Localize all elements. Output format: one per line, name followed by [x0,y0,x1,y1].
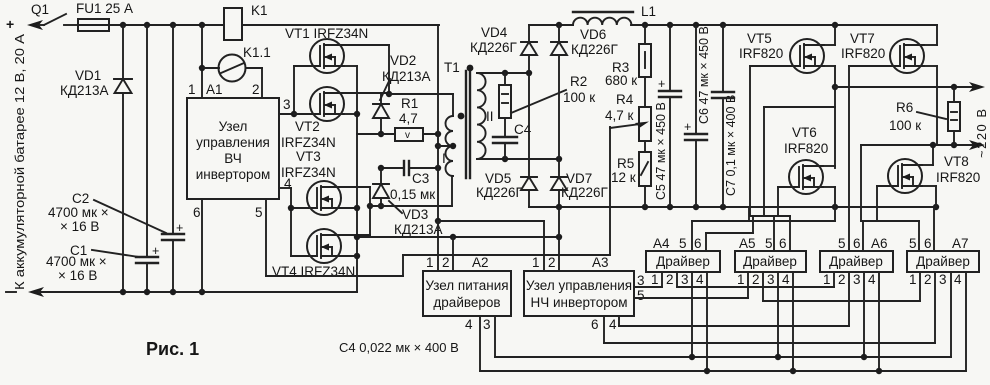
svg-text:1: 1 [532,255,540,270]
T1 primary winding I [446,116,454,176]
svg-text:Q1: Q1 [31,2,49,17]
wire VT3 drain line to T1 bottom [370,205,452,207]
svg-text:6: 6 [779,236,787,251]
HV+ top bus [529,24,573,26]
svg-text:IRF820: IRF820 [739,46,783,61]
VT7 gate wire [849,65,900,67]
svg-text:Драйвер: Драйвер [656,254,710,269]
A1 pin5 sync line to R4 wiper [266,275,403,277]
VT6 drain wire [823,165,835,167]
wire A3 pin3 to A4 pin1 [634,286,662,288]
svg-text:Рис. 1: Рис. 1 [146,339,199,359]
secondary bottom bus [477,158,559,160]
svg-text:драйверов: драйверов [433,295,500,310]
wire A2 pin3 common line [495,356,951,358]
svg-text:А2: А2 [472,255,489,270]
svg-text:2: 2 [752,272,760,287]
svg-text:VT6: VT6 [792,125,817,140]
VT8 gate wire [877,185,898,187]
svg-text:VT2: VT2 [295,119,320,134]
svg-text:5: 5 [909,236,917,251]
svg-text:Узел питания: Узел питания [425,278,508,293]
svg-text:IRF820: IRF820 [936,170,980,185]
VT8 source wire [922,185,936,187]
svg-text:VT3: VT3 [296,149,321,164]
wire A4 pin2 to A6 pin1 [677,286,834,288]
svg-text:4,7: 4,7 [399,111,418,126]
svg-text:КД213А: КД213А [60,83,109,98]
svg-text:5: 5 [679,236,687,251]
A4 pin5 HV- link [834,206,836,208]
svg-text:1: 1 [188,82,196,97]
svg-text:КД213А: КД213А [394,222,443,237]
svg-text:2: 2 [924,272,932,287]
svg-text:КД226Г: КД226Г [476,185,524,200]
svg-text:управления: управления [196,135,270,150]
svg-text:2: 2 [838,272,846,287]
wire 12V to K1.1 [201,25,203,98]
svg-text:5: 5 [637,288,645,303]
svg-text:R4: R4 [616,92,634,107]
svg-text:4: 4 [868,272,876,287]
svg-text:1: 1 [651,272,659,287]
svg-text:1: 1 [823,272,831,287]
svg-text:100 к: 100 к [889,118,921,133]
VT5 gate wire [750,65,800,67]
svg-text:4: 4 [696,272,704,287]
svg-text:Драйвер: Драйвер [916,254,970,269]
VT5 source / OUT-L column [824,65,835,67]
+12V feed line to A2 A3 [438,220,544,222]
svg-text:Драйвер: Драйвер [829,254,883,269]
wire A4 pin6 [706,232,753,234]
bottom bus minus rail [28,287,44,297]
svg-text:А6: А6 [871,236,888,251]
svg-text:T1: T1 [444,60,460,75]
svg-text:3: 3 [283,97,291,112]
wire VT1 drain line to T1 top [389,93,453,95]
VT7 source wire [924,65,937,67]
VT5 drain wire [824,44,835,46]
svg-text:C2: C2 [72,191,89,206]
VT7 drain wire [924,44,937,46]
svg-text:С7 0,1 мк × 400 В: С7 0,1 мк × 400 В [724,95,738,196]
svg-text:4,7 к: 4,7 к [605,108,634,123]
svg-text:VD5: VD5 [485,171,511,186]
VT3 VT4 drain wires [341,186,370,188]
secondary top bus [477,72,529,74]
OUT bottom line [861,144,978,146]
svg-text:6: 6 [924,236,932,251]
svg-text:А3: А3 [592,255,609,270]
svg-text:4: 4 [954,272,962,287]
svg-text:Узел управления: Узел управления [526,278,632,293]
svg-text:VD7: VD7 [566,171,592,186]
svg-text:+: + [684,120,691,134]
svg-text:1: 1 [426,255,434,270]
svg-text:НЧ инвертором: НЧ инвертором [530,295,627,310]
svg-text:× 16 В: × 16 В [58,268,97,283]
svg-text:С6 47 мк × 450 В: С6 47 мк × 450 В [697,26,711,124]
wire A3 pin6 to A7 pin2 [604,342,935,344]
svg-text:Драйвер: Драйвер [743,254,797,269]
svg-text:VT7: VT7 [850,31,875,46]
svg-text:4: 4 [465,317,473,332]
svg-text:VT8: VT8 [944,154,969,169]
svg-text:100 к: 100 к [563,90,595,105]
svg-text:C3: C3 [412,171,429,186]
VT6 source wire [823,186,835,188]
svg-text:R5: R5 [617,156,634,171]
svg-text:2: 2 [442,255,450,270]
svg-text:IRFZ34N: IRFZ34N [281,165,336,180]
svg-text:6: 6 [193,205,201,220]
svg-text:IRFZ34N: IRFZ34N [281,135,336,150]
wire A2 pin4 common line [480,370,966,372]
svg-text:5: 5 [765,236,773,251]
svg-text:С4 0,022 мк × 400 В: С4 0,022 мк × 400 В [339,340,459,355]
svg-text:5: 5 [838,236,846,251]
svg-text:3: 3 [939,272,947,287]
svg-text:K1.1: K1.1 [243,45,271,60]
T1 secondary winding II [477,73,486,159]
svg-text:FU1 25 А: FU1 25 А [76,1,133,16]
input arrow top [27,20,43,30]
svg-text:II: II [486,109,494,124]
svg-text:А1: А1 [206,82,223,97]
svg-text:инвертором: инвертором [196,167,271,182]
svg-text:К аккумуляторной батарее 12 В,: К аккумуляторной батарее 12 В, 20 А [12,34,27,290]
svg-text:+: + [152,244,159,258]
svg-text:VD3: VD3 [402,207,428,222]
VT6 gate wire [778,186,799,188]
primary polarity dot [458,113,465,120]
wire A3 pin4 to A6 pin2 [619,325,849,327]
svg-text:R2: R2 [570,74,587,89]
svg-text:6: 6 [694,236,702,251]
svg-text:12 к: 12 к [611,170,636,185]
svg-text:3: 3 [637,273,645,288]
svg-text:3: 3 [853,272,861,287]
VT3 VT4 source wires [341,207,357,209]
svg-text:VD2: VD2 [390,53,416,68]
primary bottom lead [451,176,453,206]
svg-text:4: 4 [782,272,790,287]
wire A3 pin5 to A5 pin1 [634,297,748,299]
svg-text:I: I [442,151,446,166]
OUT-L sense wire [764,106,835,108]
svg-text:VD4: VD4 [481,25,508,40]
wire A5 pin2 to A7 pin1 [763,300,920,302]
VT1 VT2 drain wires [344,44,389,46]
svg-text:3: 3 [483,317,491,332]
OUT top line [835,86,978,88]
HV- bottom bus [529,206,937,208]
ground line to A2 A3 [357,236,559,238]
svg-text:КД226Г: КД226Г [571,42,619,57]
svg-text:КД226Г: КД226Г [470,40,518,55]
wire top bus 12V [109,24,224,26]
node dots top bus [120,22,126,28]
primary centre tap [438,145,453,147]
svg-text:v: v [405,130,410,141]
svg-text:5: 5 [255,205,263,220]
svg-text:А5: А5 [739,236,756,251]
wire +12V drop column [437,25,439,221]
svg-text:А7: А7 [952,236,969,251]
svg-text:VD1: VD1 [75,68,101,83]
svg-text:4: 4 [609,317,617,332]
svg-text:6: 6 [853,236,861,251]
svg-text:3: 3 [767,272,775,287]
svg-text:L1: L1 [641,4,656,19]
svg-text:+: + [658,77,665,91]
svg-text:Узел: Узел [219,119,248,134]
svg-text:+: + [6,16,14,32]
VT1 VT2 source wires to ground column [344,65,357,67]
secondary polarity dot [467,65,474,72]
svg-text:4700 мк ×: 4700 мк × [46,254,107,269]
svg-text:6: 6 [591,317,599,332]
svg-text:А4: А4 [653,236,670,251]
svg-text:R6: R6 [896,100,913,115]
svg-text:+: + [176,221,183,235]
svg-text:1: 1 [909,272,917,287]
svg-text:IRF820: IRF820 [841,46,885,61]
svg-text:R1: R1 [401,96,418,111]
svg-text:× 16 В: × 16 В [60,219,99,234]
svg-text:2: 2 [548,255,556,270]
svg-text:ВЧ: ВЧ [224,151,241,166]
svg-text:2: 2 [666,272,674,287]
svg-text:IRF820: IRF820 [784,141,828,156]
svg-text:1: 1 [737,272,745,287]
svg-text:0,15 мк: 0,15 мк [390,187,435,202]
svg-text:4700 мк ×: 4700 мк × [48,205,109,220]
svg-text:3: 3 [681,272,689,287]
svg-text:КД226Г: КД226Г [561,185,609,200]
svg-text:VD6: VD6 [580,27,606,42]
T1 core [465,71,467,178]
svg-text:680 к: 680 к [605,73,637,88]
svg-text:VT5: VT5 [747,31,772,46]
svg-text:~220 В: ~220 В [974,107,989,158]
svg-text:2: 2 [252,82,260,97]
svg-text:С5 47 мк × 450 В: С5 47 мк × 450 В [654,102,668,200]
VT8 drain wire [922,164,933,166]
svg-text:K1: K1 [251,3,268,18]
